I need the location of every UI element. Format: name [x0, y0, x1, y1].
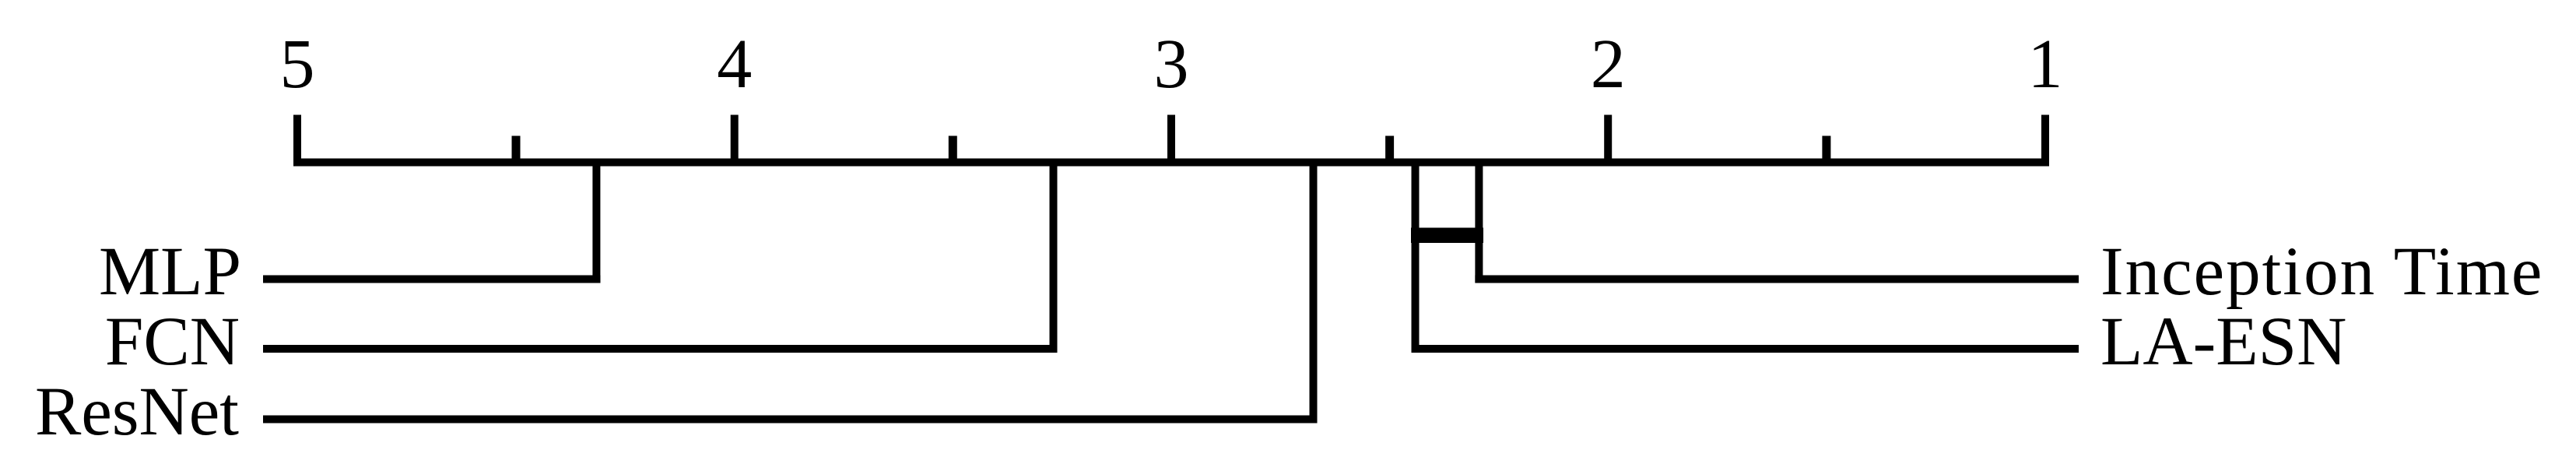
- svg-text:2: 2: [1591, 26, 1626, 103]
- svg-text:FCN: FCN: [105, 304, 240, 380]
- svg-text:1: 1: [2028, 26, 2063, 103]
- svg-text:MLP: MLP: [99, 234, 241, 310]
- svg-text:3: 3: [1154, 26, 1189, 103]
- svg-text:5: 5: [280, 26, 315, 103]
- svg-text:ResNet: ResNet: [35, 374, 239, 450]
- svg-text:Inception Time: Inception Time: [2100, 234, 2543, 310]
- svg-text:LA-ESN: LA-ESN: [2100, 304, 2346, 380]
- svg-text:4: 4: [717, 26, 752, 103]
